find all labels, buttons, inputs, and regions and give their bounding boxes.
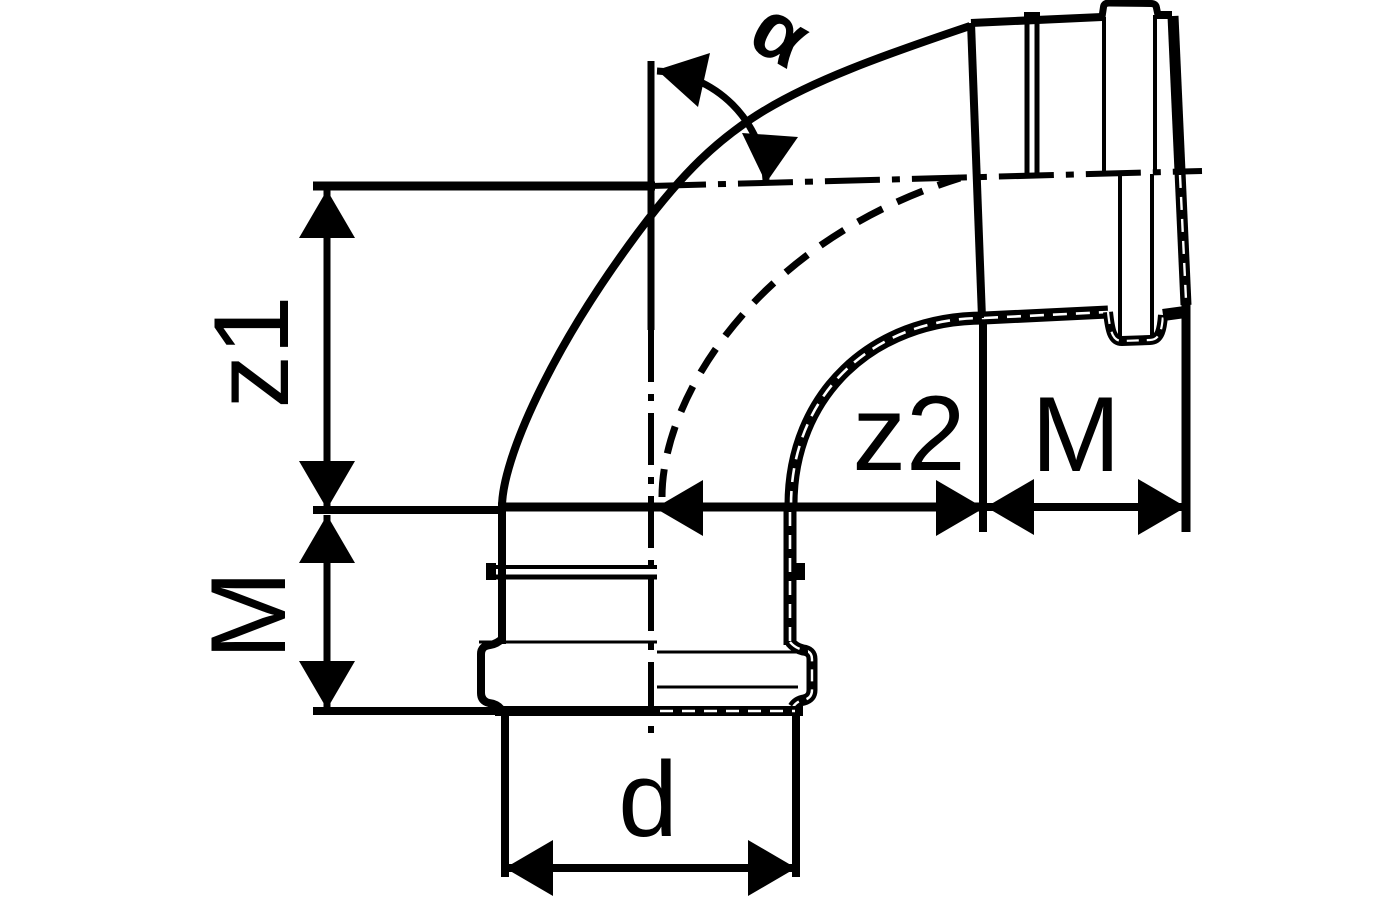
label M right	[1031, 374, 1120, 494]
component outer bend curve	[502, 26, 970, 507]
svg-text:M: M	[1031, 374, 1120, 494]
component inner bend curve double wall	[791, 318, 984, 505]
component right socket rib pair	[1027, 19, 1037, 176]
dimension M left line	[299, 515, 355, 709]
label M left	[188, 570, 308, 659]
svg-text:d: d	[618, 739, 678, 859]
component right socket rib nub	[1024, 12, 1040, 21]
wire extension line x1186	[1182, 300, 1191, 532]
label alpha	[736, 0, 825, 86]
wire bottom extension line	[313, 707, 500, 715]
component right socket mouth edge	[1173, 16, 1186, 305]
component right socket bead hidden lines upper	[1104, 15, 1155, 172]
component right socket bottom edge section	[984, 312, 1185, 341]
component bottom socket top edge and z2 dimension line	[498, 480, 985, 536]
component bottom socket left edge	[498, 507, 506, 644]
label z2	[852, 373, 965, 493]
component right socket bead top	[1102, 3, 1158, 17]
component hidden bore dashed curve	[662, 178, 960, 497]
wire top extension line z1	[313, 182, 655, 191]
svg-text:z1: z1	[191, 295, 311, 408]
svg-text:z2: z2	[852, 373, 965, 493]
node vertical angle reference line	[648, 61, 655, 737]
component right socket bead hidden lines lower	[1120, 174, 1152, 337]
component bottom socket right wall section	[790, 507, 812, 707]
component bottom socket ring grooves	[486, 563, 805, 580]
component right socket joint line	[971, 23, 982, 318]
dimension d line	[505, 840, 796, 896]
dimension M right line	[985, 479, 1188, 535]
label z1	[191, 295, 311, 408]
component bottom pipe spigot edges	[505, 714, 796, 877]
component bottom socket inner lines right half	[657, 652, 808, 687]
component bottom socket bottom edge	[495, 706, 803, 716]
wire extension line x985	[979, 320, 987, 532]
component right socket top edge	[971, 15, 1172, 23]
component bottom socket collar left	[479, 638, 657, 709]
dimension z1 line	[299, 190, 355, 509]
wire middle extension line	[313, 506, 502, 514]
dimension angle arc alpha	[657, 53, 798, 183]
node horizontal dash-dot axis	[651, 171, 1202, 186]
label d	[618, 739, 678, 859]
svg-text:M: M	[188, 570, 308, 659]
